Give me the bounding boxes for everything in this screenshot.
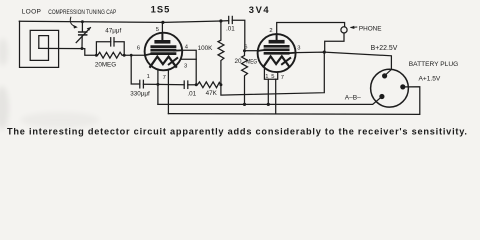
wire: 3V4 pins 1+5 to A- bus <box>267 79 269 104</box>
node: pin1 lead on filament return <box>156 83 159 86</box>
svg-text:3: 3 <box>297 46 300 52</box>
capacitor .01 (top coupling) <box>221 16 245 50</box>
wire: B+ return line from 47K node to plate junction <box>221 52 324 95</box>
svg-text:BATTERY PLUG: BATTERY PLUG <box>409 61 458 68</box>
svg-text:.01: .01 <box>187 91 196 98</box>
svg-text:1S5: 1S5 <box>151 3 171 14</box>
wire: top bus from loop to 100K junction <box>19 21 221 22</box>
svg-text:A–B–: A–B– <box>345 95 361 102</box>
svg-text:7: 7 <box>163 75 166 81</box>
phone jack J1 <box>341 27 347 33</box>
wire: grid wire to 1S5 pin 6 <box>124 54 145 56</box>
node: junction pins3/4 + 47K left <box>195 83 198 86</box>
node: plate junction on bus <box>161 21 164 24</box>
capacitor 47uuf branch <box>96 38 124 56</box>
svg-text:3V4: 3V4 <box>249 4 270 15</box>
resistor 100K (vertical) <box>218 21 224 85</box>
paper background <box>0 0 480 141</box>
node: 20MEG bottom on A- bus <box>243 103 246 106</box>
tube 1S5 V1 <box>145 33 183 71</box>
wire: 1S5 pin 1 lead down to A- bus <box>157 69 159 104</box>
node: 47K right / 100K bottom <box>219 83 222 86</box>
svg-text:The interesting detector circu: The interesting detector circuit apparen… <box>7 127 467 137</box>
svg-text:7: 7 <box>281 75 284 81</box>
loop antenna spiral <box>20 21 59 67</box>
wire: 3V4 pin 7 to A+ bus <box>275 79 277 113</box>
resistor 20MEG (vertical at 3V4) <box>242 51 248 105</box>
svg-text:6: 6 <box>244 45 247 51</box>
svg-text:47K: 47K <box>206 90 218 97</box>
tube 3V4 V2 <box>258 34 296 72</box>
node: 100K top on bus <box>219 19 222 22</box>
svg-text:3: 3 <box>184 64 187 70</box>
capacitor 330uuf <box>131 55 158 88</box>
node: junction loop/cap bottom <box>81 47 84 50</box>
node: junction cap top on bus <box>81 20 84 23</box>
wire: phone jack bottom to plate node <box>325 33 344 52</box>
node: 330uuf riser tap <box>130 54 133 57</box>
svg-text:COMPRESSION TUNING CAP: COMPRESSION TUNING CAP <box>48 9 116 16</box>
wire: 3V4 pin 2 lead and top segment to phone jack <box>277 23 345 35</box>
capacitor .01 (bottom) <box>158 81 196 88</box>
node: 3V4 grid junction <box>243 49 246 52</box>
svg-text:.01: .01 <box>226 25 235 32</box>
svg-text:47μμf: 47μμf <box>105 28 121 35</box>
3V4 bottom pin tie (pins 1,5) <box>264 68 277 79</box>
arrow: PHONE pointer <box>351 26 357 28</box>
svg-text:MEG: MEG <box>246 59 257 66</box>
resistor 20MEG grid leak (horizontal) <box>96 52 124 58</box>
wire: A+ bus to battery plug <box>168 87 419 115</box>
wire: 1S5 pin 7 lead down <box>167 70 169 114</box>
svg-text:20: 20 <box>234 58 242 65</box>
wire: 3V4 pin 3 plate wire to battery plug B+ pin <box>296 52 392 75</box>
svg-text:330μμf: 330μμf <box>130 91 150 98</box>
pin A- <box>379 94 384 99</box>
compression tuning cap C1 <box>76 22 91 49</box>
node: plate/phones/B+ junction <box>323 51 326 54</box>
pin B+ <box>382 73 387 78</box>
svg-text:20MEG: 20MEG <box>95 62 116 69</box>
svg-text:5: 5 <box>271 74 274 80</box>
svg-text:LOOP: LOOP <box>22 9 42 16</box>
node: RC right <box>123 54 126 57</box>
resistor 47K (horizontal) <box>196 82 221 88</box>
wire: loop exit line to tuning cap junction <box>39 48 97 55</box>
svg-text:100K: 100K <box>198 45 214 52</box>
svg-text:5: 5 <box>156 27 159 33</box>
svg-text:2: 2 <box>269 28 272 34</box>
pin A+ <box>400 84 405 89</box>
svg-text:1: 1 <box>265 74 268 80</box>
leader arrow from label to tuning cap <box>70 17 76 26</box>
svg-text:B+22.5V: B+22.5V <box>371 45 398 52</box>
node: RC left <box>95 54 98 57</box>
wire: 3V4 pin 6 lead <box>245 50 258 52</box>
node: on A- bus <box>267 103 270 106</box>
svg-text:PHONE: PHONE <box>359 26 382 33</box>
wire: 1S5 pin 3 lead <box>181 58 196 60</box>
wire: 1S5 pin 5 plate lead to bus <box>161 22 163 33</box>
wire: A-/B- bus to battery plug <box>158 97 382 105</box>
svg-text:6: 6 <box>137 46 140 52</box>
svg-text:A+1.5V: A+1.5V <box>418 76 440 83</box>
wire: 1S5 pin 4 lead <box>182 50 196 85</box>
svg-text:1: 1 <box>147 74 150 80</box>
battery plug P1 <box>371 69 409 107</box>
